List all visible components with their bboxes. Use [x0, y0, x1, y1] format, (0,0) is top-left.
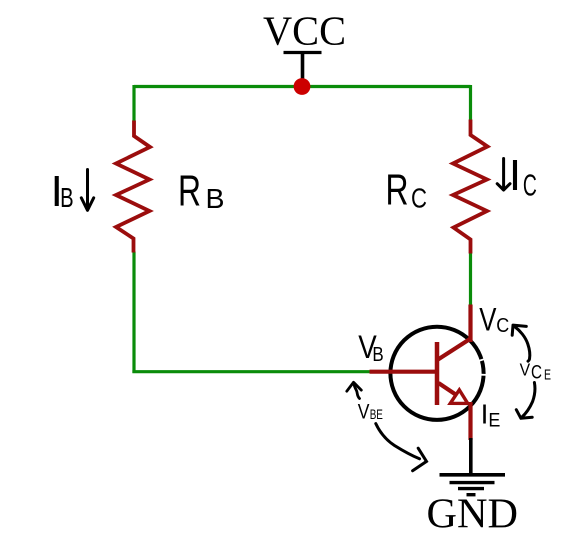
emitter lead [468, 402, 472, 440]
svg-text:V: V [520, 360, 531, 380]
transistor Q1 circle [390, 327, 486, 420]
arrow IB down [81, 170, 93, 211]
emitter diagonal [439, 383, 457, 395]
svg-text:C: C [411, 183, 427, 214]
wire left branch lower [132, 252, 135, 374]
resistor RC [453, 120, 488, 254]
VCC stem [301, 53, 305, 87]
base bar [435, 342, 440, 405]
svg-text:VCC: VCC [263, 8, 346, 54]
svg-text:BE: BE [370, 407, 383, 422]
ground bar 2 [450, 481, 495, 484]
arrow VBE small [347, 382, 362, 398]
VCC supply bar [284, 51, 322, 54]
svg-text:R: R [178, 167, 201, 216]
svg-text:V: V [358, 401, 370, 424]
wire top rail VCC [134, 85, 471, 88]
svg-text:C: C [523, 168, 537, 203]
resistor RB [116, 121, 150, 253]
arrow VBE swoosh [376, 424, 427, 471]
svg-text:C: C [496, 315, 509, 337]
wire left branch upper [132, 85, 135, 122]
arrow IC down [497, 159, 510, 191]
ground bar 3 [458, 487, 484, 490]
wire right branch mid [469, 253, 472, 306]
junction dot [294, 78, 311, 95]
svg-text:B: B [206, 183, 225, 214]
svg-text:B: B [60, 182, 74, 213]
ground bar 1 [440, 473, 506, 477]
collector diagonal [438, 338, 472, 360]
ground bar 4 [467, 493, 476, 496]
emitter arrowhead [450, 390, 467, 404]
svg-text:V: V [479, 302, 497, 338]
wire right branch upper [469, 85, 472, 121]
arrow VCE lower [516, 383, 535, 419]
svg-text:I: I [481, 399, 489, 430]
ground wire [469, 438, 473, 475]
svg-text:C: C [531, 362, 542, 383]
wire bottom base [132, 370, 370, 373]
svg-text:I: I [509, 151, 521, 200]
collector lead [468, 305, 472, 343]
base lead [370, 370, 440, 374]
svg-text:GND: GND [427, 492, 519, 538]
svg-text:B: B [372, 344, 383, 366]
svg-text:E: E [488, 411, 500, 432]
svg-text:R: R [386, 166, 409, 215]
svg-text:E: E [544, 367, 551, 383]
arrow VCE upper [512, 325, 530, 361]
